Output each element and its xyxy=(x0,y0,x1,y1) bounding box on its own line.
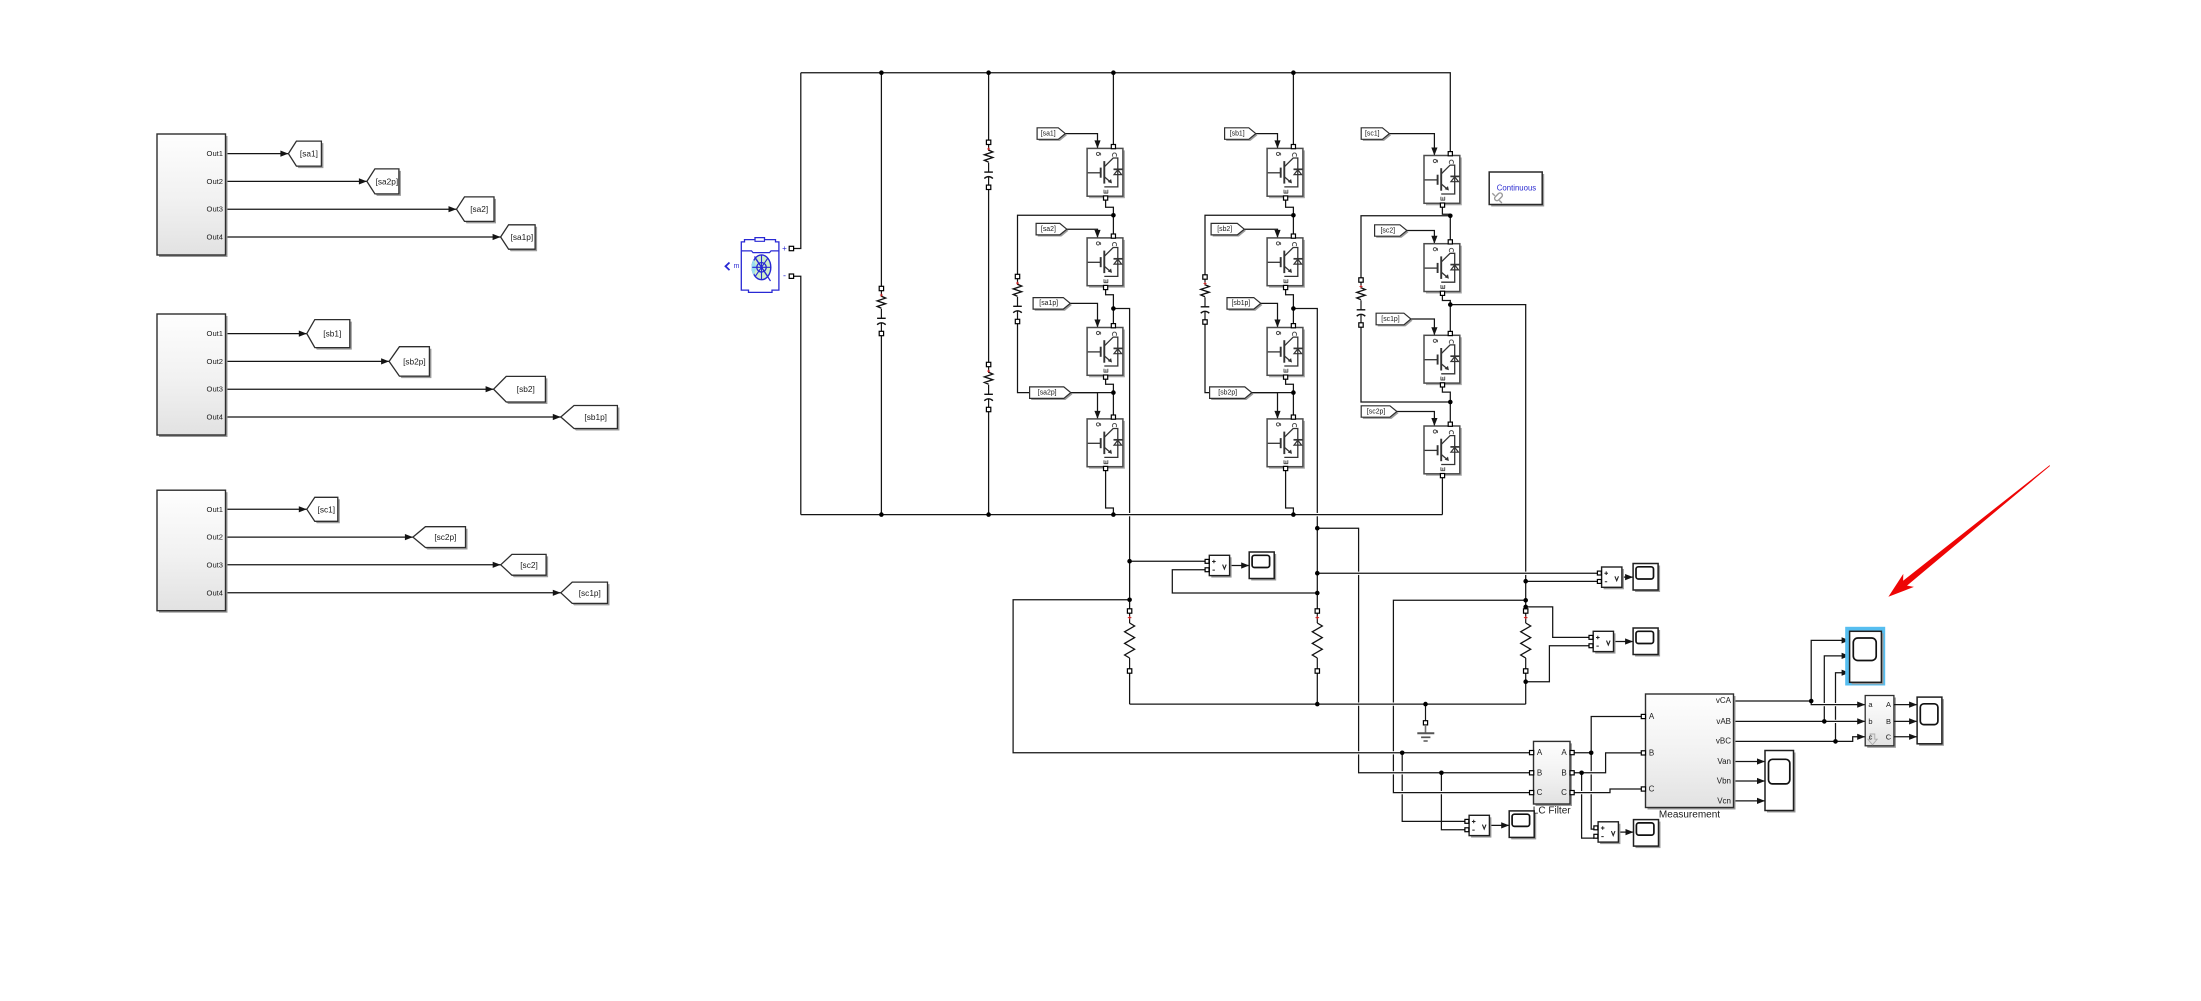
junction node A3 xyxy=(1111,390,1116,395)
IGBT/diode block b2 xyxy=(1267,234,1305,290)
IGBT/diode block c2 xyxy=(1424,240,1462,296)
wire Vcn to scope7 xyxy=(1734,800,1766,802)
junction phase C / V2- xyxy=(1523,579,1528,584)
from tag [sa2] xyxy=(1036,223,1068,236)
svg-text:Vcn: Vcn xyxy=(1717,796,1731,805)
wire LC input B to V4 - xyxy=(1440,773,1442,791)
voltage measurement V5 xyxy=(1594,822,1621,844)
goto tag [sc2] xyxy=(501,554,548,577)
goto tag [sa1p] xyxy=(501,225,537,251)
Measurement subsystem xyxy=(1641,694,1735,820)
IGBT/diode block b4 xyxy=(1267,415,1305,471)
wire from tag [sb1] to IGBT b1 gate xyxy=(1256,134,1281,149)
svg-text:[sa2]: [sa2] xyxy=(1041,226,1056,233)
scope5 xyxy=(1634,820,1661,849)
wire phase B output lower xyxy=(1316,516,1318,609)
svg-text:Out1: Out1 xyxy=(207,149,223,158)
wire vBC to scope6 xyxy=(1835,723,1837,741)
from tag [sc1] xyxy=(1361,128,1391,141)
svg-text:Out4: Out4 xyxy=(207,588,223,597)
IGBT/diode block c3 xyxy=(1424,331,1462,387)
IGBT/diode block a3 xyxy=(1087,324,1125,380)
svg-text:A: A xyxy=(1649,712,1655,721)
wire IGBT b3 emitter to node B3 xyxy=(1286,377,1294,392)
wire battery - to DC- rail xyxy=(794,276,801,514)
svg-text:C: C xyxy=(1561,788,1567,797)
wire B [sb2p] xyxy=(226,358,390,364)
wire B [sb2] xyxy=(226,386,494,392)
wire IGBT c1 emitter to node C1 xyxy=(1442,205,1450,216)
scope2 (Vbc) xyxy=(1633,564,1660,593)
wire IGBT a4 emitter to DC- rail xyxy=(1106,469,1114,515)
wire phase A load to neutral xyxy=(1129,673,1131,704)
svg-text:A: A xyxy=(1561,748,1567,757)
scope6 (line voltages, highlighted) xyxy=(1850,631,1884,684)
wire vCA to abc a xyxy=(1734,701,1866,705)
svg-text:[sb2]: [sb2] xyxy=(1217,226,1232,233)
IGBT/diode block c4 xyxy=(1424,422,1462,478)
svg-text:[sc2p]: [sc2p] xyxy=(1367,408,1385,415)
from tag [sc2] xyxy=(1375,225,1409,238)
wire V1 to scope1 xyxy=(1230,562,1250,568)
subsystem pulse generator B xyxy=(157,314,228,437)
junction DC+ rail / leg B xyxy=(1291,70,1296,75)
wire IGBT b4 emitter to DC- rail xyxy=(1286,469,1294,515)
svg-text:vAB: vAB xyxy=(1716,717,1731,726)
from tag [sa1] xyxy=(1037,128,1067,141)
svg-text:[sa1]: [sa1] xyxy=(1041,130,1056,137)
svg-text:b: b xyxy=(1868,717,1872,726)
wire from tag [sc1p] to IGBT c3 gate xyxy=(1411,319,1438,335)
IGBT/diode block a4 xyxy=(1087,415,1125,471)
wire C [sc2] xyxy=(226,562,501,568)
junction DC- rail / branch2 xyxy=(986,512,991,517)
svg-text:Out3: Out3 xyxy=(207,560,223,569)
wire abc C to scope8 xyxy=(1894,736,1917,738)
junction node B2 xyxy=(1291,306,1296,311)
wire DC+ to IGBT b1 collector xyxy=(1292,73,1294,147)
junction LC out A xyxy=(1589,751,1594,756)
load resistor phase B xyxy=(1312,609,1322,673)
wire node C3 to IGBT c4 collector xyxy=(1449,402,1451,424)
svg-text:[sb1]: [sb1] xyxy=(1230,130,1245,137)
wire node B1 to IGBT b2 collector xyxy=(1292,215,1294,236)
series RC branch R3C3 bottom xyxy=(984,362,993,411)
scope3 (Vcn) xyxy=(1633,628,1660,657)
wire abc B to scope8 xyxy=(1894,720,1917,722)
svg-text:Out3: Out3 xyxy=(207,385,223,394)
svg-text:[sc2]: [sc2] xyxy=(1381,227,1396,234)
junction phase B / V1- xyxy=(1315,591,1320,596)
wire phase B to LC filter B xyxy=(1317,528,1358,571)
wire phase C to LC filter C xyxy=(1393,600,1525,702)
wire IGBT b2 emitter to node B2 xyxy=(1286,288,1294,309)
wire node C2 to IGBT c3 collector xyxy=(1449,305,1451,334)
from tag [sb1p] xyxy=(1227,298,1262,311)
subsystem pulse generator A xyxy=(157,134,228,257)
wire A [sa1] xyxy=(226,151,289,157)
wire abc A to scope8 xyxy=(1894,704,1917,706)
from tag [sa1p] xyxy=(1033,298,1072,311)
wire phase C output upper xyxy=(1450,305,1525,572)
wire IGBT c2 emitter to node C2 xyxy=(1442,294,1450,305)
scope4 xyxy=(1509,811,1536,840)
wire B [sb1] xyxy=(226,331,307,337)
svg-text:m: m xyxy=(734,263,740,270)
scope8 xyxy=(1917,697,1944,746)
svg-text:Vbn: Vbn xyxy=(1717,777,1731,786)
series RC clamp branch phase A xyxy=(1013,274,1022,323)
svg-text:[sc1]: [sc1] xyxy=(1365,130,1380,137)
junction phase B / V2+ xyxy=(1315,571,1320,576)
svg-text:Out4: Out4 xyxy=(207,233,223,242)
wire LC out C to Measurement C xyxy=(1574,789,1641,793)
load resistor phase A xyxy=(1125,609,1135,673)
wire phase A output upper xyxy=(1113,309,1129,514)
wire neutral xyxy=(1130,703,1526,705)
wire node A1 to IGBT a2 collector xyxy=(1112,215,1114,236)
junction phase C / feeder C xyxy=(1523,598,1528,603)
wire clamp RC b bottom to node B3 xyxy=(1205,322,1293,393)
wire IGBT c4 emitter to DC- rail xyxy=(1441,476,1443,515)
series RC branch R1C1 xyxy=(877,286,886,335)
junction node A1 xyxy=(1111,213,1116,218)
svg-text:A: A xyxy=(1537,748,1543,757)
series RC branch R2C2 top xyxy=(984,140,993,189)
powergui Continuous block xyxy=(1489,172,1544,207)
svg-text:B: B xyxy=(1886,717,1891,726)
svg-text:[sa1]: [sa1] xyxy=(300,149,318,159)
wire C [sc1] xyxy=(226,506,307,512)
wire Vbn to scope7 xyxy=(1734,780,1766,782)
wire LC out B to Measurement B xyxy=(1574,753,1641,773)
svg-text:Van: Van xyxy=(1717,757,1731,766)
wire LC out A to Measurement A xyxy=(1574,717,1641,753)
junction neutral / ground xyxy=(1423,702,1428,707)
svg-text:[sc1p]: [sc1p] xyxy=(579,588,601,598)
wire battery + to DC+ rail xyxy=(794,73,801,249)
wire C [sc2p] xyxy=(226,534,413,540)
wire V4 to scope4 xyxy=(1489,822,1509,828)
wire IGBT b1 emitter to node B1 xyxy=(1286,198,1294,215)
svg-text:[sa2p]: [sa2p] xyxy=(1038,389,1057,396)
svg-text:[sb1p]: [sb1p] xyxy=(584,412,607,422)
wire LC out B to V5 - xyxy=(1581,773,1583,791)
abc to ABC block xyxy=(1865,696,1896,748)
svg-text:[sa1p]: [sa1p] xyxy=(1039,300,1058,307)
wire from tag [sc2] to IGBT c2 gate xyxy=(1407,231,1438,244)
svg-text:+: + xyxy=(782,244,787,253)
wire IGBT a3 emitter to node A3 xyxy=(1106,377,1114,392)
wire from tag [sa2p] to IGBT a4 gate xyxy=(1071,393,1101,419)
wire phase B to V2 + xyxy=(1317,572,1597,574)
from tag [sb2] xyxy=(1211,223,1246,236)
voltage measurement V2 (Vbc) xyxy=(1597,567,1624,589)
wire clamp RC c bottom to node C3 xyxy=(1361,325,1450,402)
svg-text:[sc2p]: [sc2p] xyxy=(434,532,456,542)
wire load C bottom to V3 - xyxy=(1526,646,1591,682)
svg-text:[sb2]: [sb2] xyxy=(517,384,535,394)
svg-text:Out2: Out2 xyxy=(207,533,223,542)
wire LC input A to V4 + xyxy=(1401,753,1403,771)
junction DC+ rail / branch1 xyxy=(879,70,884,75)
load resistor phase C xyxy=(1521,609,1531,673)
wire vAB to scope6 xyxy=(1823,706,1825,721)
svg-text:[sc2]: [sc2] xyxy=(520,560,538,570)
svg-text:C: C xyxy=(1537,788,1543,797)
goto tag [sb1p] xyxy=(561,406,620,431)
wire vCA to scope6 xyxy=(1811,640,1849,701)
svg-text:[sc1p]: [sc1p] xyxy=(1381,316,1399,323)
goto tag [sa2] xyxy=(457,197,497,224)
junction node C1 xyxy=(1448,214,1453,219)
wire A [sa2] xyxy=(226,206,457,212)
wire V1 - to phase B xyxy=(1172,570,1317,593)
wire from tag [sc1] to IGBT c1 gate xyxy=(1389,134,1437,156)
wire node A2 to IGBT a3 collector xyxy=(1112,309,1114,326)
wire DC+ top rail xyxy=(801,73,1451,154)
svg-text:Out1: Out1 xyxy=(207,329,223,338)
wire IGBT c3 emitter to node C3 xyxy=(1442,385,1450,402)
junction vAB / scope6 xyxy=(1822,719,1827,724)
wire vAB to abc b xyxy=(1734,720,1866,722)
wire LC out A to V5 + xyxy=(1590,753,1592,771)
wire from tag [sa2] to IGBT a2 gate xyxy=(1067,229,1101,238)
svg-text:A: A xyxy=(1886,700,1891,709)
junction phase A / feeder A xyxy=(1127,598,1132,603)
wire vBC to abc c xyxy=(1734,737,1866,742)
wire phase C to V2 - xyxy=(1526,580,1598,582)
wire node C1 to IGBT c2 collector xyxy=(1449,216,1451,242)
goto tag [sb2p] xyxy=(389,347,431,378)
LC Filter subsystem xyxy=(1530,741,1575,816)
svg-text:C: C xyxy=(1649,785,1655,794)
svg-text:[sb1p]: [sb1p] xyxy=(1232,300,1251,307)
svg-text:Measurement: Measurement xyxy=(1659,809,1720,820)
selection highlight around scope6 xyxy=(1845,627,1885,686)
junction node C2 xyxy=(1448,302,1453,307)
svg-text:[sb2p]: [sb2p] xyxy=(403,356,426,366)
wire phase A to V1 + xyxy=(1130,560,1205,562)
wire node B1 to clamp RC b top xyxy=(1205,215,1293,277)
voltage measurement V3 (Vcn) xyxy=(1589,631,1616,653)
junction phase C / V3+ xyxy=(1523,605,1528,610)
junction neutral / load B xyxy=(1315,702,1320,707)
svg-text:[sc1]: [sc1] xyxy=(318,504,336,514)
wire node A1 to clamp RC a top xyxy=(1018,215,1114,276)
scope7 (phase voltages) xyxy=(1765,751,1796,813)
junction feeder A / V4+ xyxy=(1400,751,1405,756)
svg-text:Continuous: Continuous xyxy=(1497,184,1537,193)
wire DC+ to IGBT a1 collector xyxy=(1112,73,1114,147)
svg-text:vCA: vCA xyxy=(1716,696,1732,705)
svg-text:c: c xyxy=(1869,732,1873,741)
voltage measurement V1 (Vab) xyxy=(1205,555,1232,577)
wire bus branch R1C1 xyxy=(880,73,882,289)
from tag [sb2p] xyxy=(1210,387,1254,400)
svg-text:[sb1]: [sb1] xyxy=(323,329,341,339)
wire from tag [sb2p] to IGBT b4 gate xyxy=(1252,393,1281,419)
series RC clamp branch phase C xyxy=(1357,278,1366,327)
junction load C bottom / V3- xyxy=(1523,679,1528,684)
svg-text:Out2: Out2 xyxy=(207,177,223,186)
wire from tag [sc2p] to IGBT c4 gate xyxy=(1397,412,1438,427)
svg-text:C: C xyxy=(1886,732,1892,741)
wire DC- bottom rail xyxy=(801,514,1443,516)
wire IGBT a1 emitter to node A1 xyxy=(1106,198,1114,215)
junction DC- rail / leg A xyxy=(1111,512,1116,517)
junction DC+ rail / branch2 xyxy=(986,70,991,75)
svg-text:B: B xyxy=(1561,768,1566,777)
svg-text:[sa2]: [sa2] xyxy=(470,204,488,214)
wire phase C load to node CN xyxy=(1525,673,1527,704)
wire node B2 to IGBT b3 collector xyxy=(1292,309,1294,326)
IGBT/diode block a1 xyxy=(1087,145,1125,201)
wire A [sa1p] xyxy=(226,234,501,240)
junction LC out B xyxy=(1579,771,1584,776)
wire from tag [sa1p] to IGBT a3 gate xyxy=(1070,303,1100,327)
subsystem pulse generator C xyxy=(157,490,228,613)
junction node B3 xyxy=(1291,390,1296,395)
wire C [sc1p] xyxy=(226,590,561,596)
junction phase B / feeder B xyxy=(1315,526,1320,531)
battery U1 xyxy=(726,238,794,293)
series RC clamp branch phase B xyxy=(1201,275,1210,324)
ground G1 xyxy=(1417,704,1434,741)
junction feeder B / V4- xyxy=(1439,771,1444,776)
svg-text:[sa2p]: [sa2p] xyxy=(376,176,399,186)
wire V5 to scope5 xyxy=(1619,829,1634,835)
junction node A2 xyxy=(1111,306,1116,311)
wire from tag [sb2] to IGBT b2 gate xyxy=(1244,229,1280,238)
wire from tag [sb1p] to IGBT b3 gate xyxy=(1261,303,1281,327)
svg-text:-: - xyxy=(783,271,786,281)
svg-text:LC Filter: LC Filter xyxy=(1533,805,1571,816)
goto tag [sa1] xyxy=(288,141,323,168)
scope1 (Vab) xyxy=(1249,552,1276,581)
IGBT/diode block c1 xyxy=(1424,152,1462,208)
IGBT/diode block b1 xyxy=(1267,145,1305,201)
goto tag [sb1] xyxy=(307,320,352,350)
wire phase A to LC filter A xyxy=(1013,600,1529,753)
from tag [sa2p] xyxy=(1030,387,1073,400)
junction node C3 xyxy=(1448,400,1453,405)
wire phase B load to neutral xyxy=(1316,673,1318,704)
svg-text:Out2: Out2 xyxy=(207,357,223,366)
from tag [sb1] xyxy=(1225,128,1258,141)
junction DC- rail / leg B xyxy=(1291,512,1296,517)
from tag [sc1p] xyxy=(1376,313,1412,326)
goto tag [sc1] xyxy=(307,497,340,523)
wire Van to scope7 xyxy=(1734,761,1766,763)
IGBT/diode block a2 xyxy=(1087,234,1125,290)
wire node B3 to IGBT b4 collector xyxy=(1292,393,1294,417)
svg-text:B: B xyxy=(1537,768,1542,777)
junction vCA / scope6 xyxy=(1809,699,1814,704)
wire phase B output upper xyxy=(1293,309,1317,514)
wire bus branch 2 xyxy=(988,73,990,143)
svg-text:[sa1p]: [sa1p] xyxy=(511,232,534,242)
wire clamp RC a bottom to node A3 xyxy=(1018,322,1114,393)
red annotation arrow xyxy=(1888,465,2050,597)
goto tag [sa2p] xyxy=(367,169,401,196)
goto tag [sc2p] xyxy=(413,527,468,550)
goto tag [sc1p] xyxy=(561,582,610,605)
wire B [sb1p] xyxy=(226,414,561,420)
wire node A3 to IGBT a4 collector xyxy=(1112,393,1114,417)
wire phase C to V3 + xyxy=(1526,607,1591,638)
wire from tag [sa1] to IGBT a1 gate xyxy=(1065,134,1100,149)
svg-text:[sb2p]: [sb2p] xyxy=(1218,389,1237,396)
from tag [sc2p] xyxy=(1361,406,1398,419)
wire phase C output lower xyxy=(1525,575,1527,609)
wire V2 to scope2 xyxy=(1622,574,1633,580)
svg-text:Out4: Out4 xyxy=(207,413,223,422)
svg-text:B: B xyxy=(1649,748,1654,757)
svg-text:Out1: Out1 xyxy=(207,505,223,514)
wire node C1 to clamp RC c top xyxy=(1361,216,1450,280)
junction DC- rail / branch1 xyxy=(879,512,884,517)
voltage measurement V4 xyxy=(1465,815,1492,837)
svg-text:vBC: vBC xyxy=(1716,737,1731,746)
wire A [sa2p] xyxy=(226,178,367,184)
wire V3 to scope3 xyxy=(1614,638,1634,644)
wire phase A output lower xyxy=(1129,516,1131,609)
junction DC+ rail / leg A xyxy=(1111,70,1116,75)
wire IGBT a2 emitter to node A2 xyxy=(1106,288,1114,309)
IGBT/diode block b3 xyxy=(1267,324,1305,380)
goto tag [sb2] xyxy=(494,376,548,404)
svg-text:Out3: Out3 xyxy=(207,205,223,214)
junction vBC / scope6 xyxy=(1833,739,1838,744)
junction node B1 xyxy=(1291,213,1296,218)
junction phase A / V1+ xyxy=(1127,559,1132,564)
